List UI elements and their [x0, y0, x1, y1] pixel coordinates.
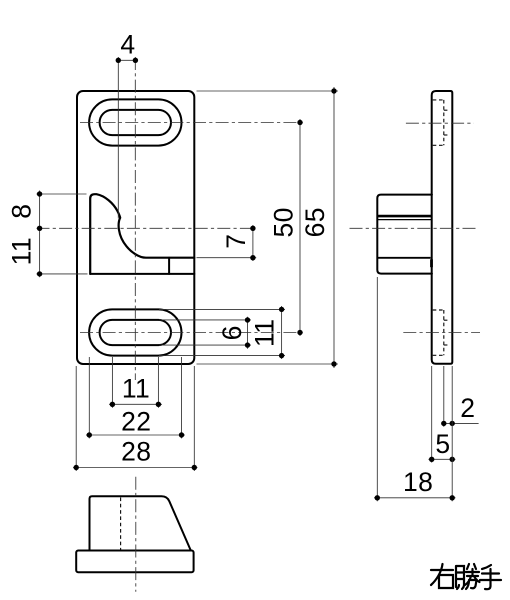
svg-text:7: 7 — [221, 234, 251, 249]
svg-text:65: 65 — [300, 207, 330, 237]
side view hidden bottom slot — [433, 310, 450, 355]
dimension 7 — [197, 225, 257, 261]
front view plate outline — [77, 91, 194, 364]
front vertical centerline — [134, 57, 136, 380]
side view latch tangent edge — [377, 219, 432, 221]
kanji katsu — [456, 564, 480, 589]
dimension 8 and 11 left — [7, 191, 88, 278]
dimension 11 bottom — [109, 357, 162, 408]
side view step corner mark — [430, 259, 433, 267]
side view bottom slot centerline — [403, 332, 480, 334]
bottom view vertical centerline — [135, 477, 137, 592]
side view latch block — [377, 195, 432, 274]
kanji migi — [431, 564, 453, 588]
dimension 65 — [197, 87, 339, 368]
dimension 4 — [116, 30, 138, 219]
svg-text:50: 50 — [268, 207, 298, 237]
svg-text:22: 22 — [121, 407, 151, 437]
side view hidden top slot — [433, 100, 450, 145]
svg-text:28: 28 — [121, 437, 151, 467]
side view plate outline — [432, 91, 453, 364]
bottom slot inner obround — [100, 320, 171, 345]
svg-text:6: 6 — [217, 325, 247, 340]
svg-text:11: 11 — [7, 237, 37, 265]
svg-text:4: 4 — [120, 30, 135, 60]
svg-text:2: 2 — [460, 393, 475, 423]
middle horizontal centerline — [37, 227, 257, 229]
top slot outer obround — [89, 99, 181, 145]
side view middle centerline — [350, 227, 478, 229]
bottom slot horizontal centerline — [80, 332, 304, 334]
svg-text:18: 18 — [403, 467, 433, 497]
svg-text:11: 11 — [122, 373, 150, 403]
side view step edge — [378, 257, 431, 259]
bottom view latch block — [90, 496, 191, 550]
dimension 22 — [86, 357, 185, 438]
bottom slot outer obround — [89, 309, 181, 355]
side view top slot centerline — [406, 122, 474, 124]
side view latch tip thick edge — [377, 215, 432, 218]
kanji te — [480, 565, 501, 589]
dimension 5 — [428, 366, 455, 463]
dimension 50 — [268, 119, 302, 336]
top slot horizontal centerline — [80, 122, 304, 124]
top slot inner obround — [100, 110, 171, 135]
bottom view hidden latch tip line — [120, 498, 122, 550]
dimension 2 — [441, 366, 479, 427]
svg-text:11: 11 — [250, 319, 280, 347]
svg-text:5: 5 — [435, 429, 450, 459]
svg-text:8: 8 — [7, 204, 37, 219]
dimension 6 — [159, 317, 251, 349]
latch step edge — [168, 258, 170, 274]
dimension 28 — [73, 366, 198, 471]
handing note migite (right hand) — [431, 564, 501, 589]
latch bottom edge — [90, 273, 194, 275]
dimension 11 right — [159, 306, 285, 359]
bottom view base plate — [76, 551, 193, 573]
latch hook profile — [90, 194, 194, 274]
dimension 18 — [374, 277, 456, 501]
